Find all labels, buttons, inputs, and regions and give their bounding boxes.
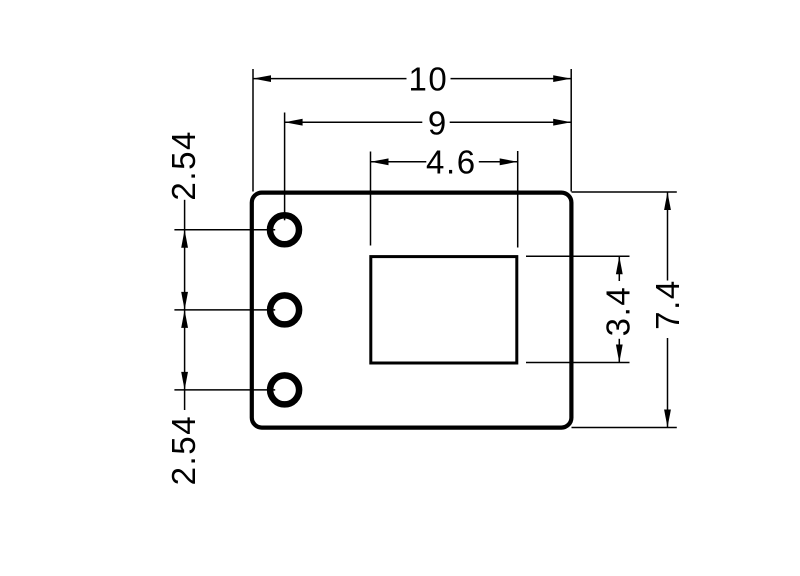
arrowhead dim 4.6 right — [500, 158, 518, 165]
arrowhead dim 4.6 left — [371, 158, 389, 165]
hole H1 center leader — [174, 229, 275, 231]
svg-text:3.4: 3.4 — [599, 286, 636, 337]
arrowhead dim 7.4 bottom — [664, 410, 671, 428]
body outline — [252, 193, 572, 428]
svg-text:10: 10 — [409, 61, 449, 98]
extension line top of dim 7.4 — [572, 191, 677, 193]
extension line top of dim 3.4 — [526, 255, 630, 257]
arrowhead dim 3.4 top — [616, 256, 623, 274]
arrowhead dim 10 left — [253, 75, 271, 82]
svg-text:7.4: 7.4 — [649, 279, 686, 330]
arrowhead dim 2.54 upper top — [181, 230, 188, 248]
dim 10 line — [253, 78, 407, 80]
svg-text:9: 9 — [428, 104, 446, 141]
arrowhead dim 7.4 top — [664, 192, 671, 210]
dim 9 line — [285, 121, 423, 123]
extension line bottom of dim 3.4 — [526, 362, 630, 364]
dim 2.54 lower line — [184, 310, 186, 410]
hole H2 — [270, 295, 299, 324]
arrowhead dim 2.54 lower top — [181, 310, 188, 328]
dim 2.54 upper line — [184, 200, 186, 310]
arrowhead dim 2.54 lower bottom — [181, 372, 188, 390]
svg-text:2.54: 2.54 — [165, 130, 202, 201]
arrowhead dim 2.54 upper bottom — [181, 292, 188, 310]
hole H1 — [270, 215, 299, 244]
arrowhead dim 9 right — [553, 119, 571, 126]
svg-text:4.6: 4.6 — [426, 144, 477, 181]
arrowhead dim 9 left — [285, 119, 303, 126]
extension line left of dim 10 — [252, 69, 254, 192]
hole H3 center leader — [174, 389, 275, 391]
hole H3 — [270, 375, 299, 404]
extension line left of dim 4.6 — [370, 152, 372, 246]
arrowhead dim 3.4 bottom — [616, 345, 623, 363]
extension line right of dim 4.6 — [517, 151, 519, 248]
extension line left of dim 9 — [284, 113, 286, 221]
svg-text:2.54: 2.54 — [165, 415, 202, 486]
dim 7.4 line — [667, 192, 669, 281]
window cutout — [371, 257, 517, 363]
extension line bottom of dim 7.4 — [572, 427, 677, 429]
dim 4.6 line — [371, 161, 427, 163]
hole H2 center leader — [174, 309, 275, 311]
dim 3.4 line — [618, 256, 620, 281]
arrowhead dim 10 right — [553, 75, 571, 82]
extension line right shared by dim 10 and dim 9 — [570, 69, 572, 192]
